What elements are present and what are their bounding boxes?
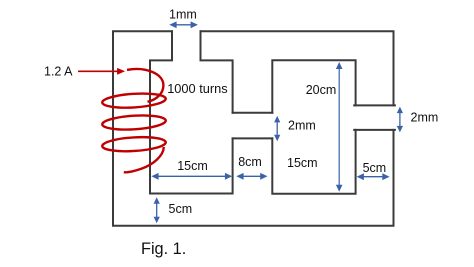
left window bottom + right edge lower: [150, 138, 233, 193]
coil exit tail: [124, 147, 164, 172]
svg-text:8cm: 8cm: [238, 155, 262, 169]
coil turn 2: [102, 92, 166, 109]
right window lower boundary: [272, 130, 355, 194]
dimension arrow 8cm (middle leg width): [236, 173, 267, 180]
current arrow 1.2 A: [78, 70, 119, 72]
dimension arrow 5cm (right leg width): [357, 173, 390, 180]
svg-text:2mm: 2mm: [288, 119, 316, 133]
top air gap left wall + left window left edge: [150, 31, 172, 193]
dimension arrow 5cm (bottom yoke thickness): [154, 197, 160, 223]
svg-text:Fig. 1.: Fig. 1.: [141, 240, 186, 258]
dimension arrow 1mm (top air gap): [169, 21, 198, 28]
svg-text:15cm: 15cm: [287, 156, 318, 170]
core outer boundary (left/bottom/right): [113, 31, 394, 226]
middle leg air gap faces: [233, 113, 273, 139]
dimension arrow 2mm (right leg gap): [397, 107, 403, 133]
coil turn 4: [102, 135, 166, 152]
svg-text:5cm: 5cm: [363, 161, 387, 175]
coil turn 3: [102, 114, 166, 131]
svg-text:5cm: 5cm: [169, 202, 193, 216]
svg-text:1000 turns: 1000 turns: [167, 81, 227, 96]
svg-text:15cm: 15cm: [177, 159, 208, 173]
right leg air gap faces: [354, 105, 395, 129]
svg-text:1mm: 1mm: [169, 7, 197, 21]
top air gap right wall + left window top-right and right edge upper: [201, 31, 233, 112]
coil turn 1 (entry arc): [127, 69, 163, 102]
svg-text:1.2 A: 1.2 A: [44, 65, 73, 79]
svg-text:20cm: 20cm: [306, 83, 337, 97]
dimension arrow 2mm (middle leg gap): [274, 116, 280, 141]
right window upper boundary: [272, 60, 355, 112]
dimension arrow 15cm (left window width): [151, 173, 232, 180]
dimension arrow 20cm (right window height): [336, 62, 343, 192]
svg-text:2mm: 2mm: [411, 110, 439, 124]
